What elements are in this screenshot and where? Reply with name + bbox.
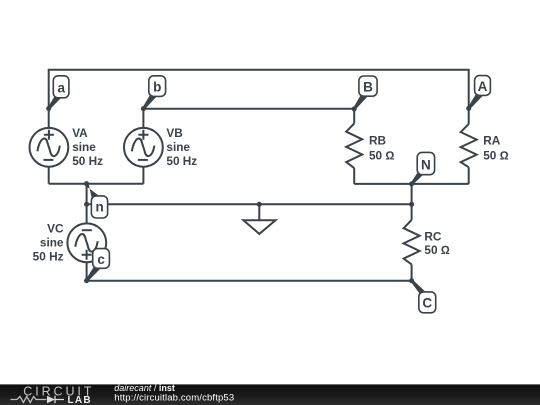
resistor RB: [346, 124, 362, 169]
node B: [352, 76, 377, 111]
wire: bottom-right horizontal joining RB and RA bottoms: [354, 183, 469, 185]
voltage source VC: [67, 223, 106, 262]
svg-text:RA: RA: [483, 134, 501, 148]
svg-text:b: b: [153, 80, 161, 95]
svg-text:c: c: [97, 252, 105, 267]
wire: bottom horizontal, node c to node C: [87, 280, 412, 282]
node A: [466, 76, 490, 111]
svg-text:VA: VA: [72, 126, 88, 140]
wire: vertical from junction down to node n: [86, 184, 88, 205]
wire: n net horizontal to RC top junction: [87, 203, 412, 205]
svg-text:sine: sine: [72, 140, 96, 154]
wire: VA bottom lead: [48, 167, 50, 184]
label RB value text: [369, 134, 394, 163]
svg-text:dairecant / inst: dairecant / inst: [114, 383, 175, 393]
wire: RC top lead: [411, 204, 413, 220]
node b: [141, 76, 166, 111]
label VA value text: [72, 126, 103, 168]
node C: [409, 278, 436, 313]
label RA value text: [483, 134, 508, 163]
footer bar: [0, 384, 540, 405]
svg-text:a: a: [57, 80, 65, 95]
label VB value text: [166, 126, 197, 168]
resistor RC: [404, 220, 420, 264]
junction: VA/VB bottom tie point: [84, 181, 89, 186]
svg-text:C: C: [422, 296, 432, 311]
svg-text:50 Hz: 50 Hz: [33, 250, 64, 264]
svg-text:50 Ω: 50 Ω: [424, 243, 449, 257]
node c: [84, 249, 109, 284]
wire: RB bottom lead: [353, 168, 355, 184]
node a: [46, 76, 69, 111]
svg-text:50 Hz: 50 Hz: [72, 154, 103, 168]
wire: VB bottom lead: [142, 167, 144, 184]
junction: RC top on n net: [409, 202, 414, 207]
label RC value text: [424, 230, 449, 258]
svg-text:VB: VB: [166, 126, 182, 140]
svg-text:VC: VC: [47, 222, 64, 236]
resistor RA: [461, 124, 477, 167]
label VC value text: [33, 222, 64, 264]
svg-text:RC: RC: [424, 230, 442, 244]
wire: RC bottom lead: [411, 264, 413, 280]
voltage source VA: [30, 128, 69, 167]
ground: [243, 202, 275, 234]
svg-text:RB: RB: [369, 134, 386, 148]
wire: vertical from node N down to n net: [411, 184, 413, 204]
wire: bottom-left horizontal joining VA and VB bottoms: [49, 183, 144, 185]
svg-text:50 Ω: 50 Ω: [483, 149, 508, 163]
svg-text:A: A: [478, 79, 488, 94]
wire: VC bottom lead to node c: [86, 262, 88, 281]
svg-text:B: B: [363, 80, 373, 95]
svg-text:50 Ω: 50 Ω: [369, 149, 394, 163]
node N: [409, 152, 435, 186]
svg-text:LAB: LAB: [68, 395, 92, 405]
wire: b net horizontal, VB top to RB top: [143, 109, 354, 128]
CircuitLab logo: [11, 384, 95, 405]
wire: top net, VA top to RA top: [49, 70, 469, 128]
svg-text:50 Hz: 50 Hz: [166, 154, 197, 168]
footer credit text: [114, 383, 234, 404]
svg-text:N: N: [421, 158, 431, 173]
svg-text:n: n: [95, 199, 103, 214]
svg-text:http://circuitlab.com/cbftp53: http://circuitlab.com/cbftp53: [114, 392, 234, 403]
node n: [84, 182, 108, 218]
wire: RA bottom lead: [468, 167, 470, 184]
svg-text:sine: sine: [166, 140, 190, 154]
svg-text:sine: sine: [40, 236, 64, 250]
voltage source VB: [124, 128, 163, 167]
wire: VC top lead: [86, 204, 88, 223]
